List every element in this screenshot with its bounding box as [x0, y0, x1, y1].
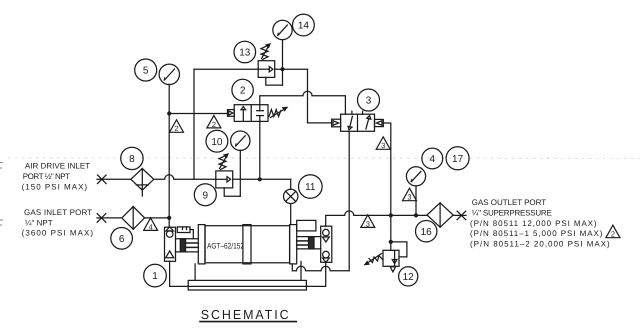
svg-text:(P/N 80511–2 20,000 PSI MAX): (P/N 80511–2 20,000 PSI MAX)	[470, 239, 610, 248]
svg-text:14: 14	[298, 21, 310, 32]
svg-text:5: 5	[143, 66, 149, 77]
svg-text:13: 13	[239, 48, 251, 59]
svg-text:(3600 PSI MAX): (3600 PSI MAX)	[22, 228, 94, 237]
svg-text:(P/N 80511 12,000 PSI MAX): (P/N 80511 12,000 PSI MAX)	[470, 219, 597, 228]
svg-text:(150 PSI MAX): (150 PSI MAX)	[22, 182, 88, 191]
svg-text:¼" SUPERPRESSURE: ¼" SUPERPRESSURE	[472, 209, 552, 218]
svg-text:16: 16	[421, 227, 433, 238]
svg-text:3: 3	[366, 219, 370, 228]
svg-text:10: 10	[211, 137, 223, 148]
svg-text:8: 8	[129, 154, 135, 165]
svg-text:PORT ½" NPT: PORT ½" NPT	[23, 172, 70, 181]
svg-text:12: 12	[403, 272, 415, 283]
svg-text:4: 4	[430, 154, 436, 165]
svg-text:2: 2	[240, 86, 246, 97]
svg-text:3: 3	[381, 141, 385, 150]
svg-text:SCHEMATIC: SCHEMATIC	[201, 307, 291, 322]
svg-text:(P/N 80511–1 5,000 PSI MAX): (P/N 80511–1 5,000 PSI MAX)	[470, 229, 603, 238]
svg-text:AGT–62/152: AGT–62/152	[207, 241, 244, 250]
svg-text:2: 2	[174, 124, 178, 133]
svg-text:6: 6	[119, 234, 125, 245]
svg-text:AIR DRIVE INLET: AIR DRIVE INLET	[25, 162, 90, 171]
svg-text:1: 1	[152, 271, 158, 282]
svg-text:3: 3	[407, 193, 411, 202]
svg-text:17: 17	[452, 154, 464, 165]
svg-text:2: 2	[611, 230, 615, 239]
svg-text:3: 3	[366, 96, 372, 107]
svg-text:4: 4	[149, 222, 153, 231]
svg-text:11: 11	[305, 182, 316, 193]
svg-text:9: 9	[203, 190, 209, 201]
svg-text:2: 2	[212, 120, 216, 129]
svg-text:GAS INLET PORT: GAS INLET PORT	[24, 208, 92, 217]
svg-text:¼" NPT: ¼" NPT	[25, 218, 53, 227]
svg-text:GAS OUTLET PORT: GAS OUTLET PORT	[472, 198, 546, 207]
